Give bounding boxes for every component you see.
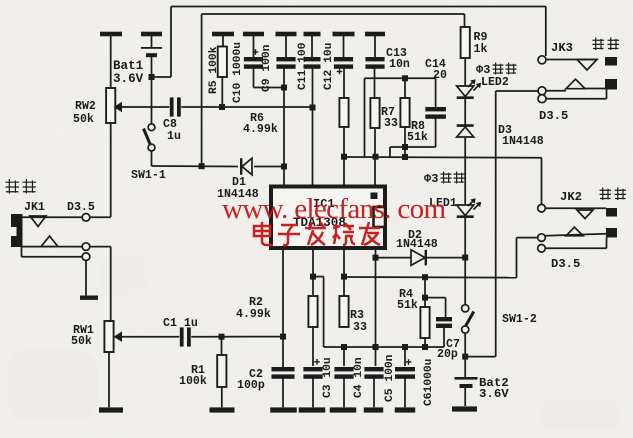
svg-text:20: 20	[433, 69, 447, 82]
svg-text:D3.5: D3.5	[551, 257, 580, 271]
svg-text:3.6V: 3.6V	[113, 72, 144, 86]
svg-text:SW1-2: SW1-2	[502, 313, 537, 326]
svg-text:C1 1u: C1 1u	[163, 317, 198, 330]
svg-text:10n: 10n	[389, 58, 410, 71]
svg-text:1k: 1k	[474, 43, 488, 56]
svg-text:D3.5: D3.5	[67, 201, 95, 214]
svg-text:R5 100k: R5 100k	[208, 46, 220, 94]
svg-text:100k: 100k	[179, 375, 207, 388]
svg-text:C4 10n: C4 10n	[353, 357, 365, 398]
svg-text:C11 100: C11 100	[297, 42, 309, 90]
svg-text:100p: 100p	[237, 379, 265, 392]
svg-text:C9 100n: C9 100n	[261, 44, 273, 92]
svg-text:51k: 51k	[407, 131, 428, 144]
svg-text:50k: 50k	[71, 335, 92, 348]
svg-text:C12 10u: C12 10u	[323, 43, 335, 90]
svg-text:3.6V: 3.6V	[479, 387, 509, 401]
svg-text:Φ3: Φ3	[476, 63, 490, 77]
svg-text:C10 1000u: C10 1000u	[232, 42, 244, 103]
svg-text:www. elecfans. com: www. elecfans. com	[222, 193, 446, 225]
svg-text:Φ3: Φ3	[424, 172, 438, 186]
svg-text:C61000u: C61000u	[423, 359, 435, 406]
svg-text:1u: 1u	[167, 130, 181, 143]
svg-text:33: 33	[384, 117, 398, 130]
svg-text:51k: 51k	[397, 299, 418, 312]
svg-text:RW2: RW2	[75, 100, 96, 113]
svg-text:JK1: JK1	[24, 201, 45, 214]
svg-text:4.99k: 4.99k	[236, 308, 271, 321]
svg-text:LED2: LED2	[481, 76, 509, 89]
svg-text:1N4148: 1N4148	[502, 135, 544, 148]
svg-text:D3.5: D3.5	[539, 109, 568, 123]
svg-text:C3 10u: C3 10u	[322, 357, 334, 398]
svg-text:4.99k: 4.99k	[243, 123, 278, 136]
svg-text:JK2: JK2	[560, 190, 582, 204]
svg-text:C5 100n: C5 100n	[384, 354, 396, 402]
svg-text:33: 33	[353, 321, 367, 334]
svg-text:SW1-1: SW1-1	[131, 169, 166, 182]
svg-text:JK3: JK3	[551, 41, 573, 55]
svg-text:50k: 50k	[73, 113, 94, 126]
svg-text:Bat1: Bat1	[113, 59, 144, 73]
svg-text:1N4148: 1N4148	[396, 238, 438, 251]
svg-text:20p: 20p	[437, 348, 458, 361]
